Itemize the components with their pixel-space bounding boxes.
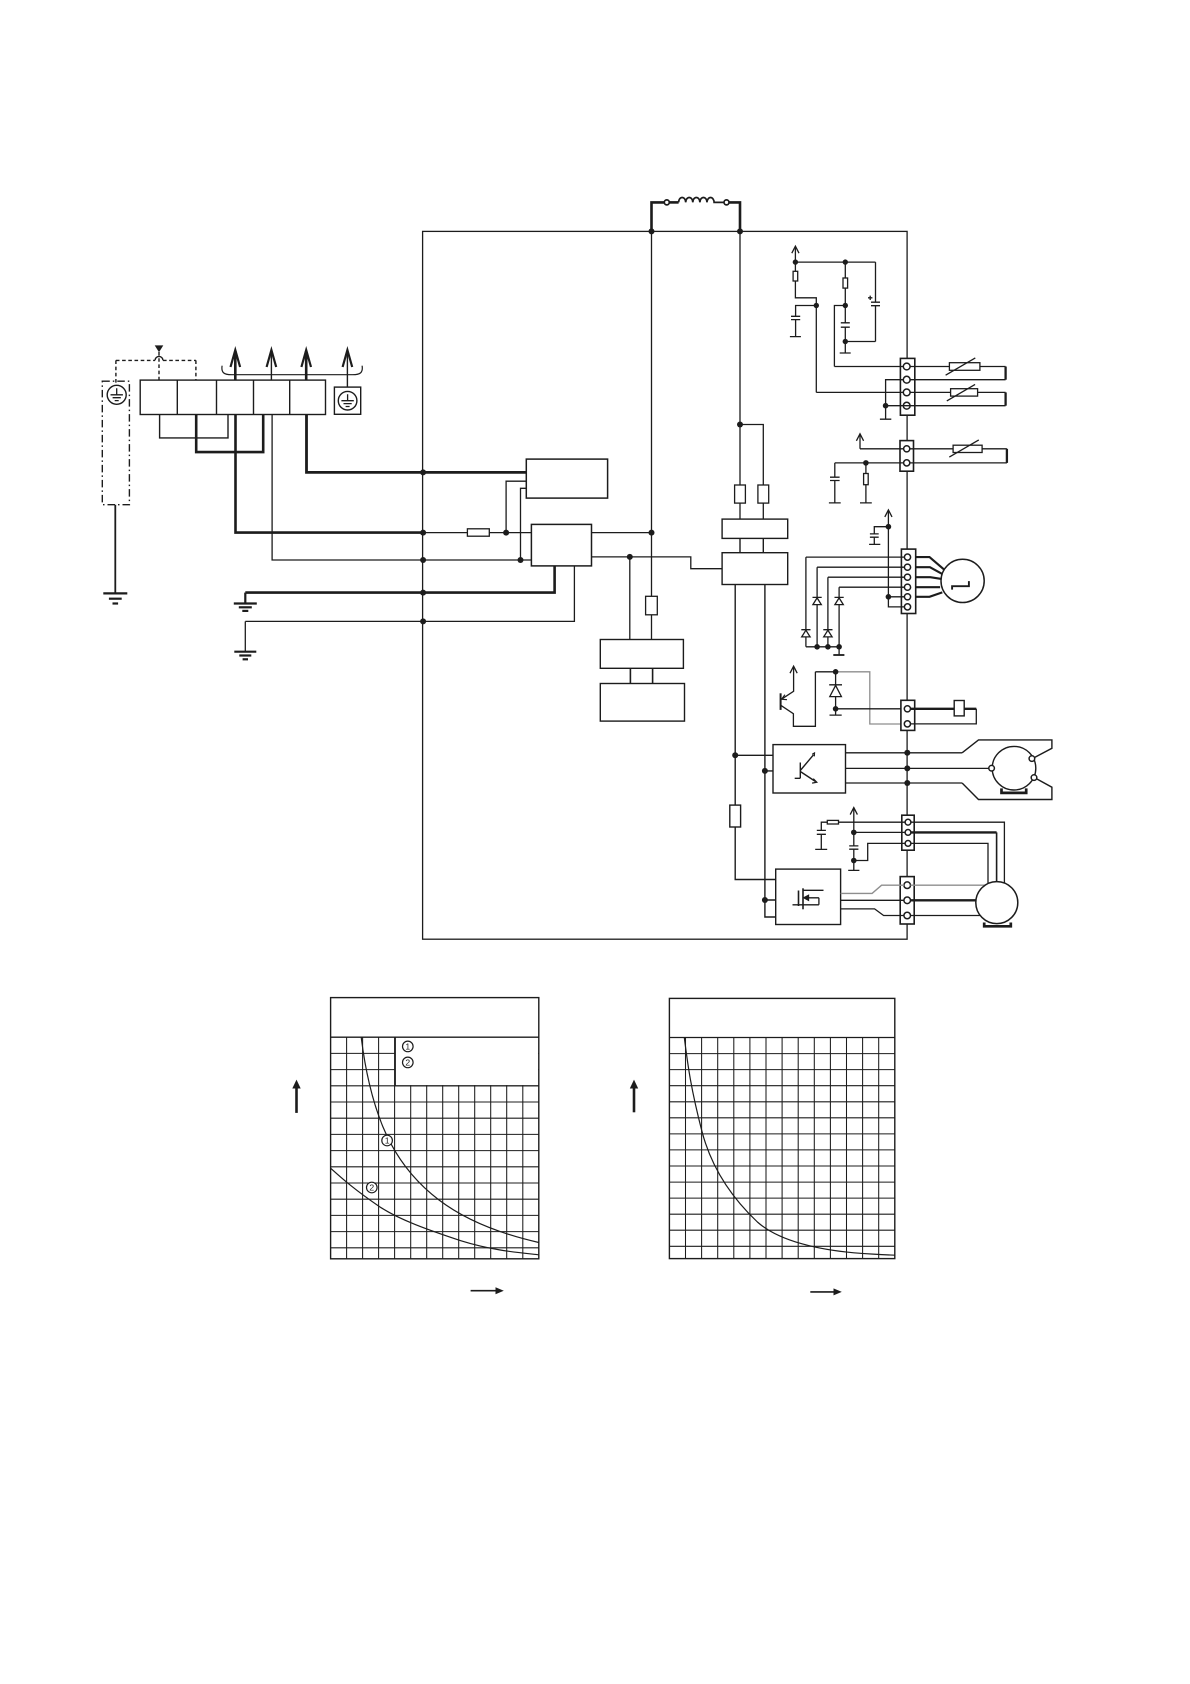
svg-text:1: 1: [405, 1042, 410, 1052]
svg-text:1: 1: [385, 1136, 390, 1146]
svg-text:2: 2: [405, 1058, 410, 1068]
svg-text:2: 2: [369, 1183, 374, 1193]
